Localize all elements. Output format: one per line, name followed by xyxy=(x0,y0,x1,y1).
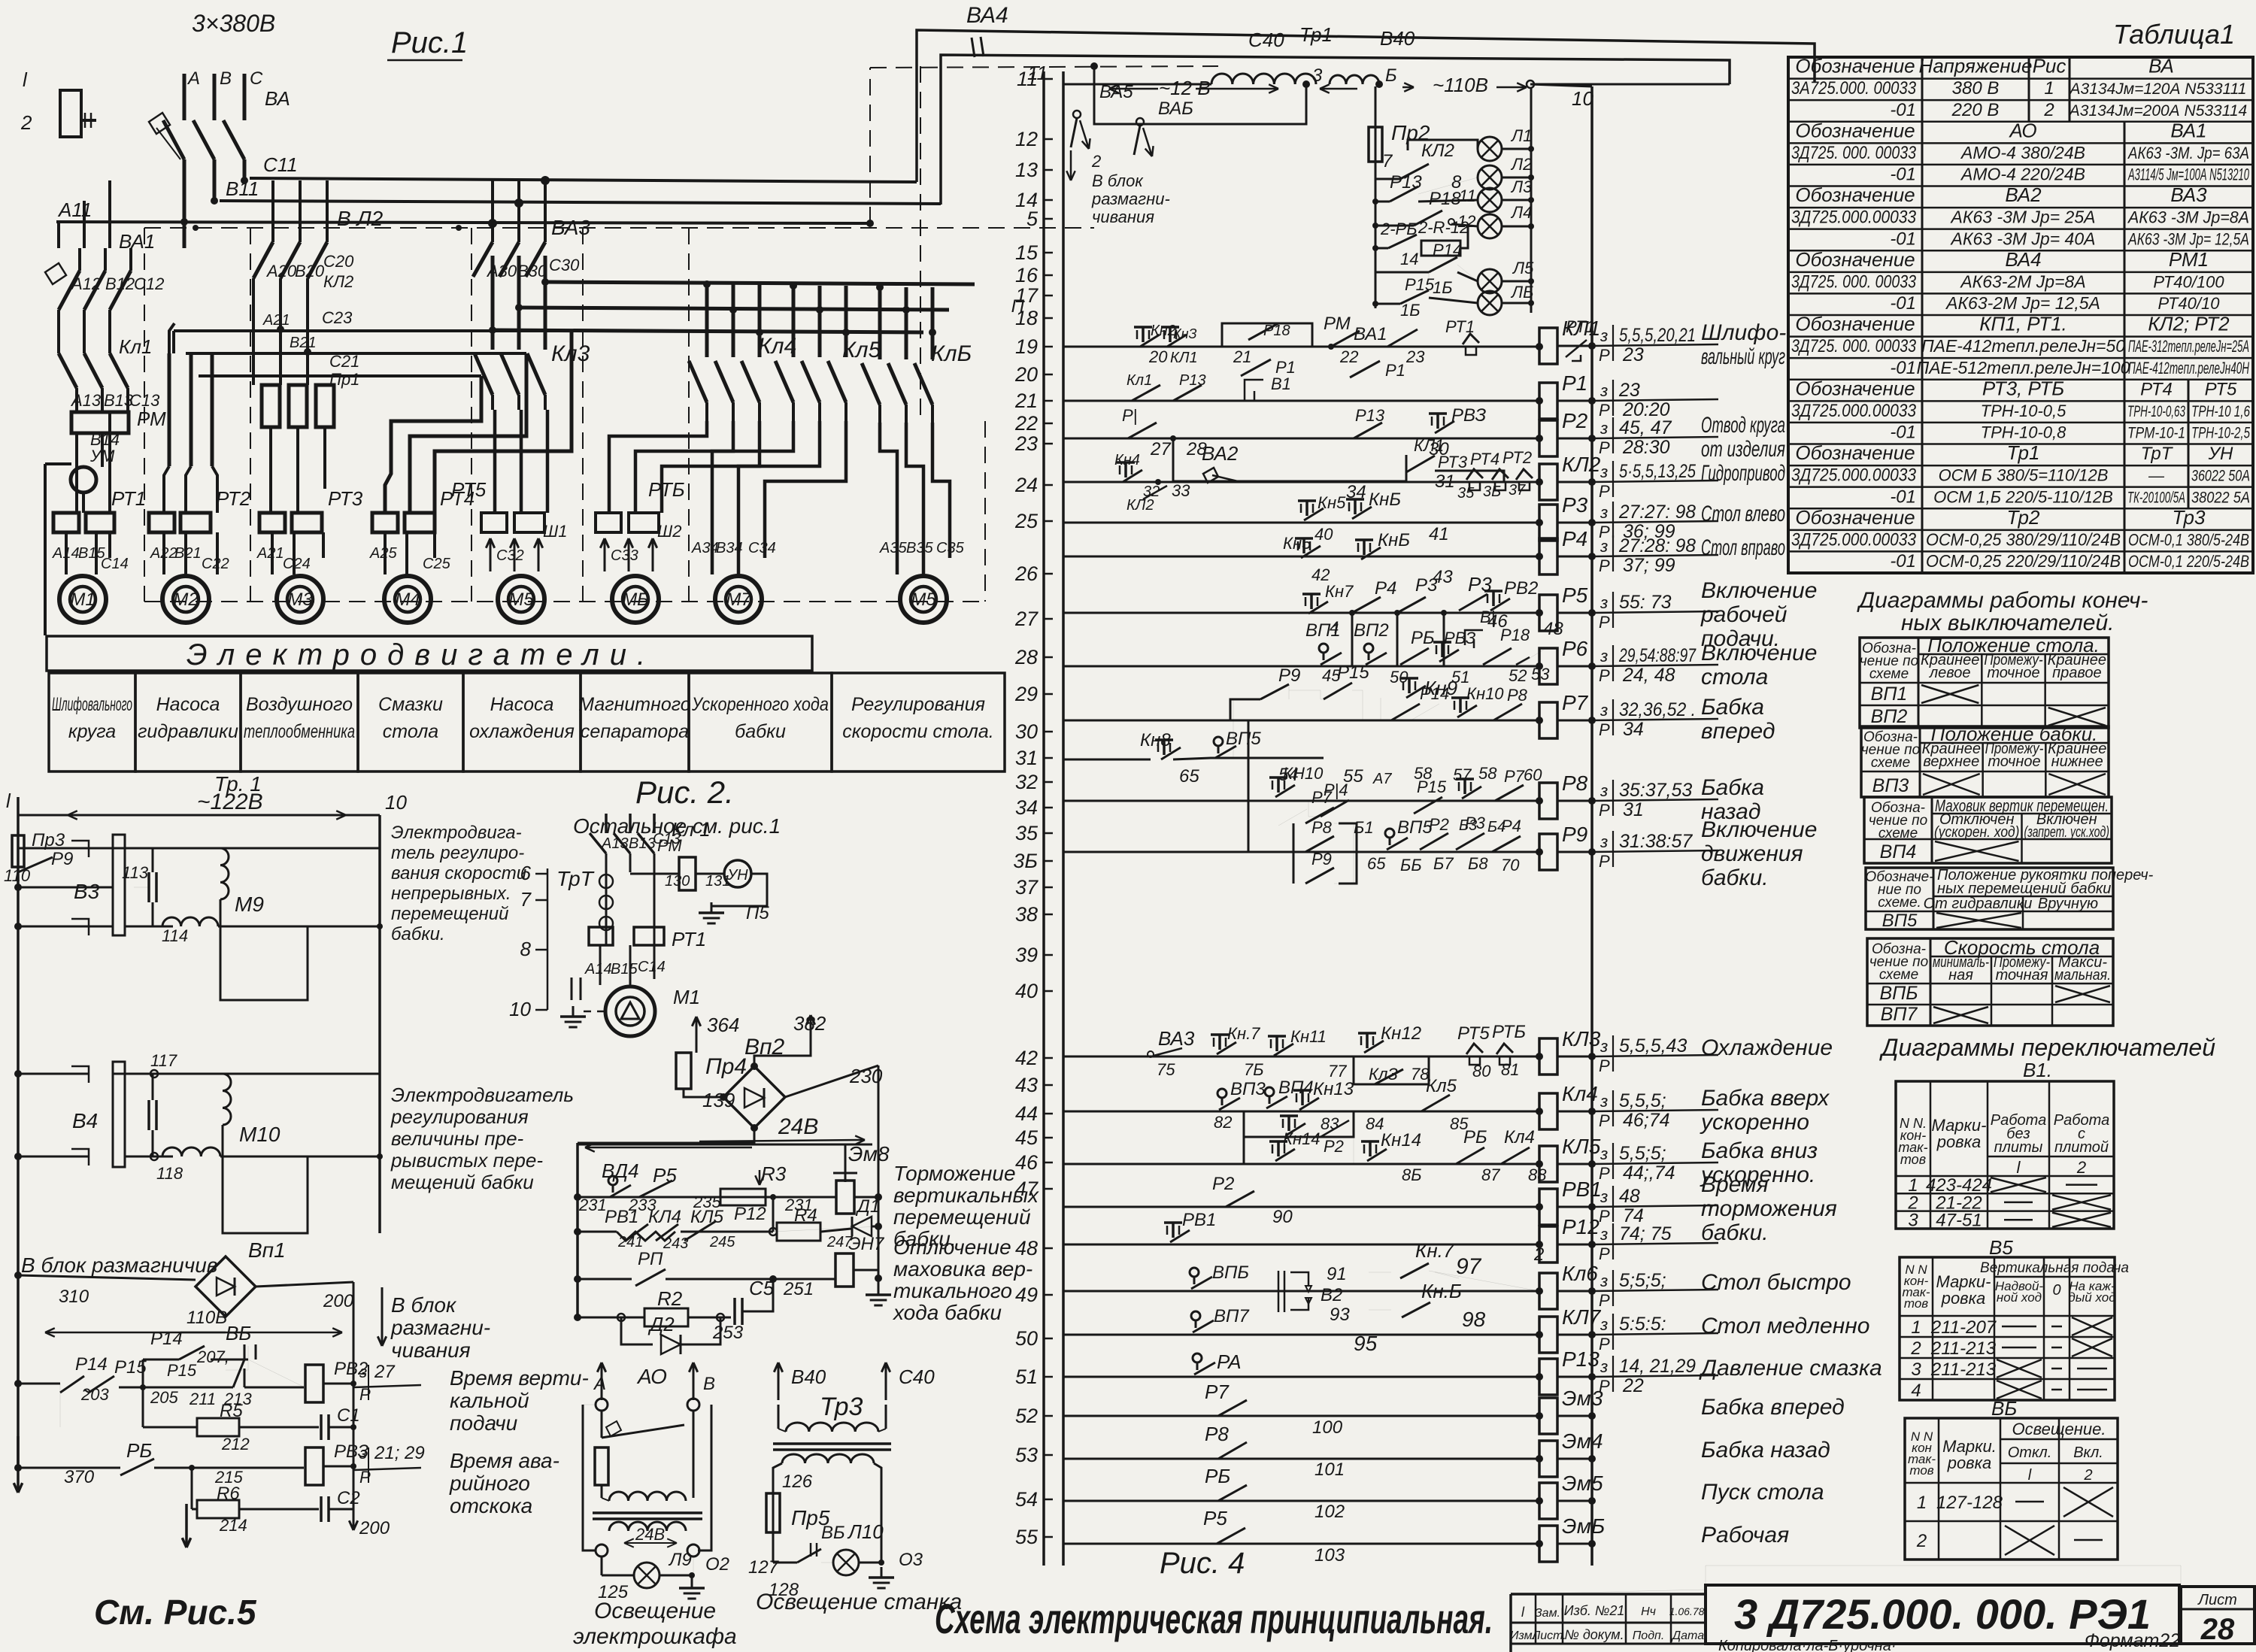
svg-text:Рабочая: Рабочая xyxy=(1701,1523,1789,1547)
svg-text:126: 126 xyxy=(782,1472,813,1492)
svg-text:3Д725. 000. 00033: 3Д725. 000. 00033 xyxy=(1791,143,1917,163)
svg-text:ВА: ВА xyxy=(2148,55,2174,77)
svg-text:3Д725. 000. 00033: 3Д725. 000. 00033 xyxy=(1791,271,1917,292)
relay coil РВ1 xyxy=(1539,1189,1557,1225)
svg-text:гидравлики: гидравлики xyxy=(138,721,238,742)
see figure 5 note xyxy=(185,1504,188,1547)
svg-text:Диаграммы переключателей: Диаграммы переключателей xyxy=(1879,1034,2215,1061)
svg-text:ВА5: ВА5 xyxy=(1099,82,1133,102)
svg-text:перемещений: перемещений xyxy=(391,904,508,924)
svg-text:Б8: Б8 xyxy=(1468,854,1488,873)
svg-text:243: 243 xyxy=(663,1235,688,1252)
svg-text:з: з xyxy=(1600,326,1608,345)
title block frame xyxy=(1509,1594,1512,1652)
svg-text:101: 101 xyxy=(1314,1460,1345,1480)
svg-text:РТБ: РТБ xyxy=(1492,1022,1526,1042)
svg-text:верхнее: верхнее xyxy=(1923,753,1979,770)
svg-text:~122В: ~122В xyxy=(197,790,263,814)
svg-text:ББ: ББ xyxy=(1400,856,1422,874)
relay coil КЛ5 xyxy=(1539,1146,1557,1182)
branch M2 wires xyxy=(168,353,171,466)
svg-text:46;74: 46;74 xyxy=(1623,1110,1670,1131)
svg-text:R4: R4 xyxy=(794,1205,817,1226)
ground and link left of M1 xyxy=(571,978,573,1000)
svg-text:вальный круг: вальный круг xyxy=(1701,344,1785,369)
thermal relay РТ4 xyxy=(372,513,398,532)
svg-text:вперед: вперед xyxy=(1701,719,1775,744)
svg-text:ВА1: ВА1 xyxy=(2170,119,2206,141)
svg-text:46: 46 xyxy=(1015,1151,1039,1174)
svg-text:С14: С14 xyxy=(101,556,129,572)
svg-text:С11: С11 xyxy=(263,153,298,176)
svg-text:24В: 24В xyxy=(635,1525,665,1544)
svg-text:2-R-12: 2-R-12 xyxy=(1418,218,1469,237)
svg-text:плиты: плиты xyxy=(1994,1139,2043,1156)
svg-text:М2: М2 xyxy=(173,590,198,610)
transformer windings АО xyxy=(601,1485,603,1498)
svg-text:2: 2 xyxy=(2043,100,2054,120)
svg-text:Электродвигатели.: Электродвигатели. xyxy=(186,638,656,671)
svg-text:АК63 -3М Jр= 25А: АК63 -3М Jр= 25А xyxy=(1950,208,2096,227)
svg-text:Р7: Р7 xyxy=(1311,788,1333,807)
svg-text:Р2: Р2 xyxy=(1562,409,1588,432)
svg-text:-01: -01 xyxy=(1890,423,1916,443)
svg-text:60: 60 xyxy=(1524,765,1542,784)
resistor R6 xyxy=(191,1468,193,1509)
svg-text:53: 53 xyxy=(1015,1444,1038,1466)
svg-text:Р6: Р6 xyxy=(1562,637,1588,660)
svg-text:-01: -01 xyxy=(1890,358,1916,378)
wire 24В distribution xyxy=(578,1128,754,1143)
svg-text:В блок: В блок xyxy=(1092,171,1144,190)
svg-text:ВП2: ВП2 xyxy=(1871,706,1908,727)
svg-text:Р9: Р9 xyxy=(1311,850,1332,868)
capacitor 117-118 xyxy=(147,1100,150,1130)
svg-text:Тр2: Тр2 xyxy=(2007,506,2040,529)
svg-text:РТ3, РТБ: РТ3, РТБ xyxy=(1982,377,2064,399)
svg-text:83: 83 xyxy=(1321,1114,1339,1133)
svg-text:Р9: Р9 xyxy=(51,849,73,869)
rung 28-29 Р6 circuit branch xyxy=(1063,665,1539,668)
fuse Пр1 group xyxy=(262,385,280,427)
svg-text:Р15: Р15 xyxy=(1405,275,1435,294)
svg-text:з: з xyxy=(1600,701,1608,720)
inductor M10 vertical xyxy=(223,1074,231,1125)
svg-text:Р: Р xyxy=(1599,346,1610,365)
svg-text:55: 55 xyxy=(1015,1526,1039,1548)
switch В4 block xyxy=(66,1073,89,1075)
svg-text:~110В: ~110В xyxy=(1433,74,1488,96)
rung 49 Кл6 circuit xyxy=(1063,1290,1539,1293)
svg-text:з: з xyxy=(1600,537,1608,556)
contact Р14 upper branch xyxy=(142,1359,144,1387)
svg-text:241: 241 xyxy=(617,1234,643,1250)
svg-text:В15: В15 xyxy=(611,961,638,978)
svg-text:бабки: бабки xyxy=(735,721,786,742)
svg-text:45, 47: 45, 47 xyxy=(1619,417,1672,438)
device УН voltmeter xyxy=(724,860,751,887)
switch ВА5 xyxy=(1073,111,1081,118)
svg-text:Р: Р xyxy=(1599,1207,1610,1226)
svg-text:23: 23 xyxy=(1622,344,1644,365)
svg-text:КЛ2; РТ2: КЛ2; РТ2 xyxy=(2148,313,2230,335)
svg-text:3: 3 xyxy=(1312,65,1323,86)
svg-text:Р8: Р8 xyxy=(1562,771,1588,795)
svg-text:сепаратора: сепаратора xyxy=(581,721,689,742)
svg-text:Обозначение: Обозначение xyxy=(1795,441,1915,464)
svg-text:Давление смазка: Давление смазка xyxy=(1699,1356,1882,1381)
svg-text:Шлифо-: Шлифо- xyxy=(1701,320,1786,345)
svg-text:ТрТ: ТрТ xyxy=(2141,444,2174,464)
lamp Л2 xyxy=(1478,165,1502,189)
svg-text:R5: R5 xyxy=(220,1401,243,1421)
svg-text:В20: В20 xyxy=(295,262,325,280)
table ВП1 ВП2 Положение стола xyxy=(1860,638,2109,728)
svg-text:31:38:57: 31:38:57 xyxy=(1619,831,1693,852)
svg-text:23: 23 xyxy=(1405,347,1425,366)
svg-text:90: 90 xyxy=(1272,1207,1293,1227)
table Таблица1 grid xyxy=(1788,57,2253,573)
svg-text:УН: УН xyxy=(726,867,748,884)
svg-text:С30: С30 xyxy=(549,256,580,274)
cabinet boundary dashed xyxy=(144,227,1094,229)
row 241-245 РВ1 Кл4 Кл5 contacts xyxy=(574,1228,581,1235)
svg-text:С40: С40 xyxy=(1248,29,1284,51)
svg-text:3Б: 3Б xyxy=(1483,483,1501,500)
svg-text:размагни-: размагни- xyxy=(1091,189,1170,208)
svg-text:211-213: 211-213 xyxy=(1930,1338,1997,1359)
svg-text:АК63-2М Jр= 12,5А: АК63-2М Jр= 12,5А xyxy=(1945,293,2100,313)
relay coil КЛ2 xyxy=(1539,464,1557,500)
table В1 switch diagram xyxy=(1896,1081,2114,1229)
svg-text:95: 95 xyxy=(1354,1332,1378,1355)
svg-text:М4: М4 xyxy=(395,590,420,610)
svg-text:Кн2: Кн2 xyxy=(1151,323,1176,339)
svg-text:М9: М9 xyxy=(235,893,264,916)
svg-text:310: 310 xyxy=(59,1287,89,1307)
svg-text:Л9: Л9 xyxy=(668,1550,692,1570)
svg-text:Кн5: Кн5 xyxy=(1283,534,1311,553)
svg-text:АО: АО xyxy=(2008,119,2036,141)
svg-text:бабки.: бабки. xyxy=(1701,1220,1769,1245)
svg-text:30: 30 xyxy=(1015,720,1038,743)
svg-text:Р7: Р7 xyxy=(1205,1381,1230,1403)
svg-text:41: 41 xyxy=(1429,524,1449,544)
wires M5 xyxy=(493,410,497,513)
svg-text:РТ1: РТ1 xyxy=(1566,317,1595,336)
svg-text:М5: М5 xyxy=(508,590,534,610)
svg-text:38022 5А: 38022 5А xyxy=(2191,489,2250,506)
svg-text:КЛ2: КЛ2 xyxy=(1126,497,1154,514)
switch inside cabinet light xyxy=(601,1411,603,1438)
relay coil Р12 xyxy=(1539,1226,1557,1262)
wire 364 arrow xyxy=(696,1017,698,1053)
lamp Л5 xyxy=(1457,265,1478,281)
svg-text:Р15: Р15 xyxy=(1417,778,1447,796)
svg-text:С14: С14 xyxy=(638,959,666,975)
fuse cabinet light xyxy=(595,1447,608,1485)
diode bridge ВП1 xyxy=(196,1256,256,1317)
svg-text:КлБ: КлБ xyxy=(931,341,972,366)
contact Р18 lamp xyxy=(1375,225,1414,227)
svg-text:В блок размагничив: В блок размагничив xyxy=(21,1253,217,1277)
svg-text:33: 33 xyxy=(1172,481,1190,500)
svg-text:С32: С32 xyxy=(496,547,524,564)
svg-text:114: 114 xyxy=(162,926,188,945)
svg-text:20: 20 xyxy=(1148,347,1168,366)
svg-text:26: 26 xyxy=(1014,562,1039,585)
device УМ circle xyxy=(71,467,96,493)
thermal relay РТ1 xyxy=(53,513,79,532)
svg-text:С33: С33 xyxy=(611,547,638,564)
relay coil КЛ7 xyxy=(1539,1317,1557,1353)
svg-text:С35: С35 xyxy=(936,540,965,556)
svg-text:91: 91 xyxy=(1327,1264,1347,1284)
svg-text:24: 24 xyxy=(1014,474,1038,496)
svg-text:А3134Jм=200А N533114: А3134Jм=200А N533114 xyxy=(2068,102,2247,120)
svg-text:схеме: схеме xyxy=(1869,666,1909,682)
svg-text:С22: С22 xyxy=(202,556,229,572)
motor M5 xyxy=(498,576,544,623)
svg-text:Вкл.: Вкл. xyxy=(2073,1444,2103,1461)
feeder buses M5-M8 xyxy=(545,282,975,284)
svg-text:АК63 -3М Jр= 40А: АК63 -3М Jр= 40А xyxy=(1950,229,2096,248)
svg-text:№ докум.: № докум. xyxy=(1564,1627,1624,1642)
svg-text:58: 58 xyxy=(1478,764,1497,783)
svg-text:3×380В: 3×380В xyxy=(192,10,275,37)
svg-text:АО: АО xyxy=(636,1365,667,1388)
diode Д2 branch xyxy=(621,1317,653,1344)
motor M7 xyxy=(715,576,762,623)
svg-text:Р: Р xyxy=(1599,613,1610,632)
svg-text:В1.: В1. xyxy=(2023,1059,2052,1081)
svg-text:КнБ: КнБ xyxy=(1369,490,1401,510)
svg-text:212: 212 xyxy=(221,1435,250,1453)
svg-text:Кн.Б: Кн.Б xyxy=(1421,1280,1462,1302)
svg-text:28: 28 xyxy=(2200,1613,2235,1646)
svg-text:РТ4: РТ4 xyxy=(2140,379,2173,399)
svg-text:РБ: РБ xyxy=(1463,1127,1487,1147)
svg-text:Кл4: Кл4 xyxy=(758,334,796,359)
svg-text:Р7: Р7 xyxy=(1562,691,1589,714)
branch M3 contactor ВЛ2/Кл2 xyxy=(271,180,274,242)
svg-text:35: 35 xyxy=(1015,822,1039,844)
svg-text:ВП3: ВП3 xyxy=(1230,1079,1266,1099)
svg-text:36022 50А: 36022 50А xyxy=(2191,468,2250,485)
svg-text:127-128: 127-128 xyxy=(1936,1493,2003,1513)
svg-text:В2: В2 xyxy=(1321,1285,1342,1305)
svg-text:М7: М7 xyxy=(726,590,752,610)
svg-text:чивания: чивания xyxy=(391,1338,471,1362)
wires M3 down xyxy=(269,427,272,513)
svg-text:Л10: Л10 xyxy=(847,1520,884,1543)
svg-text:Кл1: Кл1 xyxy=(119,335,152,358)
svg-text:11: 11 xyxy=(1459,186,1476,205)
svg-text:47-51: 47-51 xyxy=(1936,1211,1982,1231)
svg-text:С5: С5 xyxy=(749,1277,775,1299)
svg-text:А3134Jм=120А N533111: А3134Jм=120А N533111 xyxy=(2069,80,2247,98)
svg-text:-01: -01 xyxy=(1890,165,1916,185)
relay coil Кл6 xyxy=(1539,1273,1557,1309)
switch ВБ lamp xyxy=(773,1562,797,1564)
svg-text:35: 35 xyxy=(1457,485,1475,502)
wire rail bottom xyxy=(1063,1544,1064,1566)
svg-text:R6: R6 xyxy=(217,1484,240,1504)
ladder left rails xyxy=(1042,71,1045,1566)
svg-text:Кн11: Кн11 xyxy=(1290,1027,1327,1046)
svg-text:8Б: 8Б xyxy=(1402,1165,1422,1184)
svg-text:РТ1: РТ1 xyxy=(1445,317,1475,336)
svg-text:Изб. №21: Изб. №21 xyxy=(1564,1603,1625,1618)
svg-text:точная: точная xyxy=(1996,967,2048,984)
svg-text:хода бабки: хода бабки xyxy=(892,1301,1002,1324)
svg-text:Р13: Р13 xyxy=(1390,172,1422,192)
svg-text:Кл6: Кл6 xyxy=(1562,1262,1598,1285)
svg-text:Зам.|: Зам.| xyxy=(1535,1607,1563,1620)
svg-text:УН: УН xyxy=(2208,444,2233,464)
svg-text:В35: В35 xyxy=(906,540,933,556)
svg-text:ВП4: ВП4 xyxy=(1880,841,1917,862)
svg-text:220 В: 220 В xyxy=(1951,100,2000,120)
svg-text:29,54:88:97: 29,54:88:97 xyxy=(1618,645,1697,666)
svg-text:Кн8: Кн8 xyxy=(1140,730,1171,750)
svg-text:маховика вер-: маховика вер- xyxy=(893,1257,1032,1281)
svg-text:КЛ2: КЛ2 xyxy=(1562,453,1601,476)
rung 21 Р1 circuit xyxy=(1063,400,1539,402)
cabinet light transformer АО xyxy=(601,1363,603,1400)
svg-text:РТБ: РТБ xyxy=(648,478,685,501)
svg-text:ВП5: ВП5 xyxy=(1882,911,1918,931)
svg-text:размагни-: размагни- xyxy=(390,1316,490,1339)
svg-text:Р2: Р2 xyxy=(1429,815,1449,834)
thermal relay РТ5 xyxy=(481,513,507,532)
svg-text:44: 44 xyxy=(1015,1102,1038,1125)
svg-text:ОСМ Б 380/5=110/12В: ОСМ Б 380/5=110/12В xyxy=(1939,466,2109,485)
svg-text:ТРН-10-2,5: ТРН-10-2,5 xyxy=(2191,425,2250,442)
svg-text:364: 364 xyxy=(707,1014,739,1036)
svg-text:А22: А22 xyxy=(150,545,177,562)
svg-text:24, 48: 24, 48 xyxy=(1622,665,1675,686)
svg-text:ТрТ: ТрТ xyxy=(556,867,595,890)
wire 230 xyxy=(785,1065,878,1097)
svg-text:ВБ: ВБ xyxy=(821,1523,845,1543)
capacitor С2 xyxy=(320,1496,323,1522)
svg-text:РВ1: РВ1 xyxy=(1182,1210,1216,1230)
svg-text:Электродвига-: Электродвига- xyxy=(391,823,522,843)
svg-text:49: 49 xyxy=(1015,1284,1038,1306)
svg-text:Магнитного: Магнитного xyxy=(578,694,691,715)
svg-text:0: 0 xyxy=(2052,1282,2060,1299)
svg-text:102: 102 xyxy=(1314,1502,1345,1522)
svg-text:А: А xyxy=(593,1374,606,1394)
motor M1 xyxy=(59,576,106,623)
svg-text:Рис. 4: Рис. 4 xyxy=(1160,1547,1245,1580)
svg-text:Р15: Р15 xyxy=(1337,662,1369,683)
svg-text:Освещение станка: Освещение станка xyxy=(756,1590,962,1614)
svg-text:Л3: Л3 xyxy=(1510,177,1533,196)
svg-text:Р: Р xyxy=(1599,401,1610,420)
svg-text:ЭмБ: ЭмБ xyxy=(1562,1514,1605,1538)
svg-text:-01: -01 xyxy=(1890,487,1916,507)
resistor R5 xyxy=(59,1384,61,1427)
svg-text:Р7: Р7 xyxy=(1504,767,1525,786)
lamp Л6 xyxy=(1429,298,1478,303)
svg-text:10: 10 xyxy=(1572,87,1593,110)
thermal РТ1 fig2 xyxy=(589,927,613,945)
wire 200 right xyxy=(256,1282,353,1287)
svg-text:100: 100 xyxy=(1312,1417,1343,1438)
svg-text:Р: Р xyxy=(1599,720,1610,739)
svg-text:А13: А13 xyxy=(601,835,629,852)
svg-text:ВП1: ВП1 xyxy=(1305,620,1341,641)
svg-text:22: 22 xyxy=(1014,412,1038,435)
svg-text:74; 75: 74; 75 xyxy=(1619,1223,1672,1244)
lamp Л4 xyxy=(1451,224,1478,226)
svg-text:Кл4: Кл4 xyxy=(1504,1127,1535,1147)
svg-text:Обозначение: Обозначение xyxy=(1795,119,1915,141)
svg-text:3Д725.000.00033: 3Д725.000.00033 xyxy=(1791,465,1917,486)
svg-text:А34: А34 xyxy=(691,540,719,556)
svg-text:Р13: Р13 xyxy=(1562,1347,1600,1371)
svg-text:правое: правое xyxy=(2052,665,2102,681)
motor table Электродвигатели header bar xyxy=(47,636,812,671)
svg-text:РТ5: РТ5 xyxy=(451,478,487,501)
svg-text:27:27: 98: 27:27: 98 xyxy=(1618,502,1696,523)
svg-text:34: 34 xyxy=(1015,796,1038,819)
svg-text:Нч: Нч xyxy=(1641,1605,1656,1618)
svg-text:схеме: схеме xyxy=(1871,755,1910,771)
svg-text:рийного: рийного xyxy=(449,1472,530,1495)
svg-text:Кн10: Кн10 xyxy=(1466,684,1504,703)
svg-text:з: з xyxy=(1600,381,1608,400)
svg-text:Освещение: Освещение xyxy=(594,1599,716,1623)
svg-text:Отвод круга: Отвод круга xyxy=(1701,413,1785,438)
svg-text:Включение: Включение xyxy=(1701,641,1817,665)
svg-text:з: з xyxy=(1600,1187,1608,1206)
svg-text:53: 53 xyxy=(1531,665,1550,684)
svg-text:14, 21,29: 14, 21,29 xyxy=(1619,1356,1696,1377)
inductor M9 vertical xyxy=(220,848,229,899)
svg-text:Р: Р xyxy=(1599,852,1610,871)
svg-text:Кл5: Кл5 xyxy=(842,338,881,362)
svg-text:ровка: ровка xyxy=(1941,1289,1986,1308)
svg-text:14: 14 xyxy=(1400,250,1418,268)
wires M8 from КлБ xyxy=(880,423,897,574)
svg-text:Р9: Р9 xyxy=(1278,665,1300,686)
svg-text:Ш1: Ш1 xyxy=(543,522,567,541)
svg-text:ВА2: ВА2 xyxy=(2005,183,2042,206)
svg-text:75: 75 xyxy=(1157,1060,1175,1079)
wire 110V segment xyxy=(1320,88,1357,90)
resistor R2 row xyxy=(574,1314,581,1321)
svg-text:ТРН-10-0,8: ТРН-10-0,8 xyxy=(1981,423,2066,442)
svg-text:В40: В40 xyxy=(1380,27,1415,50)
svg-text:Кн14: Кн14 xyxy=(1283,1129,1321,1148)
table ВП3 Положение бабки xyxy=(1861,726,2109,797)
svg-text:98: 98 xyxy=(1462,1308,1486,1331)
svg-text:Кл3: Кл3 xyxy=(551,341,590,366)
svg-text:скорости стола.: скорости стола. xyxy=(842,721,994,742)
fuse Пр3 xyxy=(12,835,24,867)
svg-text:з: з xyxy=(1600,1092,1608,1111)
incoming terminal block xyxy=(60,90,81,137)
rung 24 КЛ2 circuit xyxy=(1063,481,1539,483)
svg-text:Насоса: Насоса xyxy=(156,694,220,715)
svg-text:чивания: чивания xyxy=(1092,208,1154,226)
svg-text:-01: -01 xyxy=(1890,100,1916,120)
svg-text:5:5:5:: 5:5:5: xyxy=(1619,1314,1666,1335)
svg-text:10: 10 xyxy=(385,791,407,814)
